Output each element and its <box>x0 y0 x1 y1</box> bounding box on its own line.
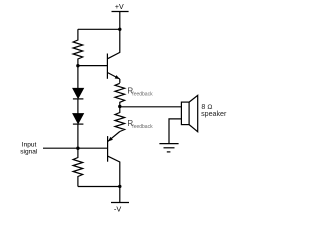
transistor Q2 <box>108 132 120 187</box>
resistor R2 <box>73 148 83 186</box>
transistor Q1 <box>107 29 119 79</box>
wire input to Q2 base <box>43 147 108 149</box>
svg-text:feedback: feedback <box>132 91 153 97</box>
wire Q1 emitter lead <box>119 79 121 83</box>
node C junction dot (output node) <box>118 105 121 108</box>
label R_feedback (lower) <box>127 119 153 130</box>
node B junction dot <box>76 64 79 67</box>
ground <box>159 144 178 152</box>
wire bottom rail <box>78 186 120 188</box>
label -V <box>114 204 121 213</box>
wire D2 to node E <box>77 124 79 148</box>
wire +V riser <box>119 12 121 30</box>
resistor R1 <box>73 29 83 65</box>
svg-text:Input: Input <box>22 142 37 149</box>
wire D1 to D2 <box>77 99 79 114</box>
wire top rail to R1 <box>78 28 120 30</box>
wire -V riser <box>119 187 121 203</box>
svg-text:+V: +V <box>115 4 124 11</box>
label R_feedback (upper) <box>127 87 153 98</box>
speaker (driver box and cone) <box>181 95 197 131</box>
-V power terminal bar <box>111 202 129 204</box>
label +V <box>115 4 124 11</box>
wire speaker bottom terminal to ground <box>169 119 181 143</box>
svg-text:feedback: feedback <box>132 124 153 130</box>
diode D2 <box>73 114 84 125</box>
+V power terminal bar <box>112 11 129 13</box>
node E junction dot <box>76 147 79 150</box>
label Input signal <box>20 142 38 156</box>
node D junction dot <box>118 185 121 188</box>
wire node B to Q1 base <box>78 65 108 67</box>
diode D1 <box>73 88 84 99</box>
node A junction dot <box>118 28 121 31</box>
resistor R_feedback (lower) <box>115 107 125 132</box>
svg-text:signal: signal <box>20 149 38 156</box>
label 8 ohm speaker <box>201 103 227 118</box>
resistor R_feedback (upper) <box>115 83 125 106</box>
svg-text:speaker: speaker <box>201 110 227 118</box>
wire diode chain (node B down) <box>77 66 79 89</box>
wire output node to speaker <box>120 106 182 108</box>
svg-text:-V: -V <box>114 204 121 213</box>
